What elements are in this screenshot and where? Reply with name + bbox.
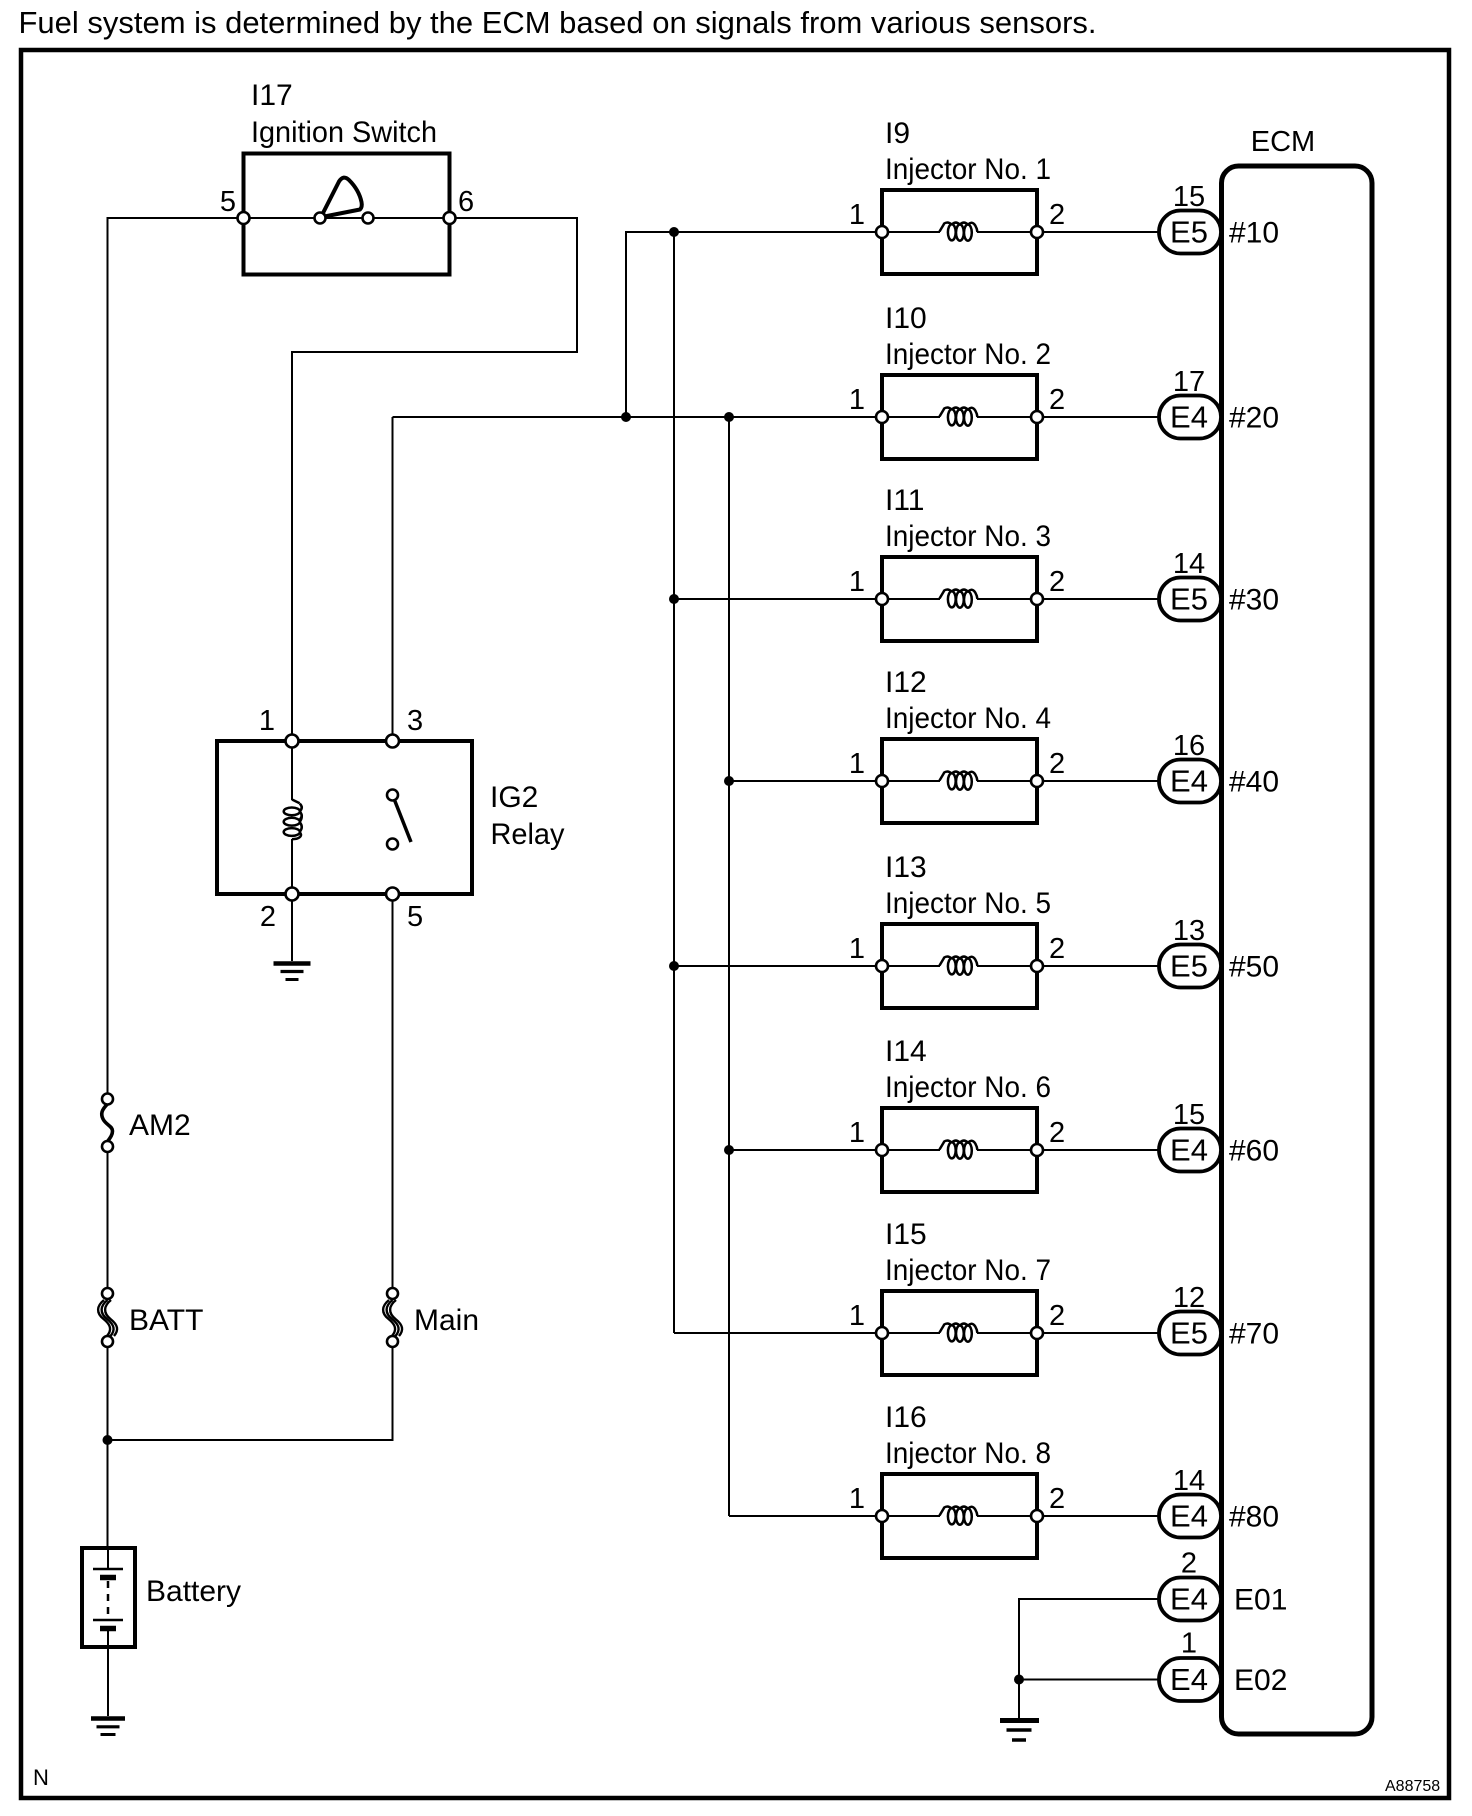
- relay pin 3: [386, 735, 399, 748]
- ECM box: [1222, 166, 1373, 1734]
- node: junction injector2 feed left: [621, 412, 631, 422]
- svg-text:1: 1: [259, 705, 275, 737]
- svg-text:2: 2: [1049, 748, 1065, 780]
- injector I12 coil: [948, 773, 956, 789]
- svg-text:E5: E5: [1170, 582, 1208, 617]
- relay contact circles: [387, 790, 398, 801]
- svg-text:1: 1: [849, 566, 865, 598]
- injector I14 pin 2: [1031, 1144, 1043, 1156]
- wire: bus feeding injectors 4,6,8: [728, 417, 730, 1516]
- svg-text:N: N: [33, 1765, 49, 1790]
- svg-text:I10: I10: [885, 302, 927, 335]
- wire: bus from injector1 row to injector2 row: [626, 232, 875, 417]
- svg-text:1: 1: [849, 1117, 865, 1149]
- injector I12 box: [882, 739, 1037, 823]
- injector I14 pin 1: [876, 1144, 888, 1156]
- svg-text:2: 2: [1049, 1117, 1065, 1149]
- injector I10 pin 1: [876, 411, 888, 423]
- svg-text:14: 14: [1173, 1465, 1205, 1497]
- injector I11 coil: [948, 591, 956, 607]
- relay coil: [291, 747, 293, 800]
- svg-text:#30: #30: [1229, 584, 1279, 617]
- ECM connector E4 pin 16 (#40): [1159, 760, 1221, 803]
- injector I9 pin 1: [876, 226, 888, 238]
- node: junction injector2 feed right: [724, 412, 734, 422]
- injector I14 coil: [948, 1142, 956, 1158]
- ECM connector E5 pin 14 (#30): [1159, 578, 1221, 621]
- ground (battery): [91, 1719, 125, 1735]
- svg-text:12: 12: [1173, 1282, 1205, 1314]
- wire: feed to injector I10 pin1: [393, 416, 876, 418]
- svg-text:Injector No. 7: Injector No. 7: [885, 1254, 1051, 1287]
- ECM connector E4 pin 14 (#80): [1159, 1495, 1221, 1538]
- injector I11 box: [882, 557, 1037, 641]
- svg-text:2: 2: [1049, 199, 1065, 231]
- svg-text:E4: E4: [1170, 1133, 1208, 1168]
- svg-text:17: 17: [1173, 366, 1205, 398]
- wire: bus feeding injectors 3,5,7: [673, 232, 675, 1333]
- wire: injector I11 pin2 to ECM #30: [1043, 598, 1159, 600]
- injector I16 box: [882, 1474, 1037, 1558]
- node: junction injector5 feed: [669, 961, 679, 971]
- relay pin 1: [286, 735, 299, 748]
- ECM connector E5 pin 15 (#10): [1159, 211, 1221, 254]
- svg-text:Ignition Switch: Ignition Switch: [251, 116, 437, 149]
- svg-text:IG2: IG2: [490, 781, 538, 814]
- svg-text:15: 15: [1173, 181, 1205, 213]
- wire: injector I9 pin2 to ECM #10: [1043, 231, 1159, 233]
- node: junction injector4 feed: [724, 776, 734, 786]
- ignition switch blade: [323, 178, 362, 217]
- injector I15 coil: [948, 1325, 956, 1341]
- svg-text:1: 1: [849, 199, 865, 231]
- wire: E01 to ground branch: [1019, 1599, 1159, 1680]
- svg-text:A88758: A88758: [1385, 1778, 1440, 1795]
- ECM connector E4 pin 2 (E01): [1159, 1578, 1221, 1621]
- svg-text:Injector No. 2: Injector No. 2: [885, 338, 1051, 371]
- node: battery junction: [103, 1435, 113, 1445]
- fusible link Main: [383, 1300, 402, 1336]
- wire: injector I14 pin2 to ECM #60: [1043, 1149, 1159, 1151]
- injector I13 pin 2: [1031, 960, 1043, 972]
- injector I15 pin 1: [876, 1327, 888, 1339]
- ignition switch inner contact circles: [315, 213, 326, 224]
- wire: junction to Main fusible link: [108, 1347, 393, 1440]
- wire: feed to injector I15 pin1: [674, 1332, 875, 1334]
- wire: feed to injector I12 pin1: [729, 780, 875, 782]
- wire: feed to injector I16 pin1: [729, 1515, 875, 1517]
- node: ground junction: [1014, 1675, 1024, 1685]
- wire: injector I16 pin2 to ECM #80: [1043, 1515, 1159, 1517]
- wire: injector I13 pin2 to ECM #50: [1043, 965, 1159, 967]
- svg-text:Relay: Relay: [491, 818, 565, 851]
- wire: injector I12 pin2 to ECM #40: [1043, 780, 1159, 782]
- svg-text:2: 2: [1049, 1300, 1065, 1332]
- injector I13 box: [882, 924, 1037, 1008]
- injector I16 internal wire: [888, 1515, 940, 1517]
- ignition switch I17 box: [244, 154, 450, 275]
- wire: relay pin3 to injector No.2 feed: [392, 417, 394, 735]
- svg-text:Injector No. 3: Injector No. 3: [885, 520, 1051, 553]
- svg-text:5: 5: [407, 901, 423, 933]
- injector I9 coil: [948, 224, 956, 240]
- svg-text:2: 2: [1181, 1548, 1197, 1580]
- svg-text:#80: #80: [1229, 1501, 1279, 1534]
- svg-text:#40: #40: [1229, 766, 1279, 799]
- svg-text:1: 1: [849, 933, 865, 965]
- svg-text:1: 1: [849, 1300, 865, 1332]
- ignition switch pin 6: [444, 212, 456, 224]
- relay pin 2: [286, 888, 299, 901]
- injector I15 box: [882, 1291, 1037, 1375]
- ignition switch pin 5: [238, 212, 250, 224]
- node: junction injector3 feed: [669, 594, 679, 604]
- svg-text:3: 3: [407, 705, 423, 737]
- svg-text:Injector No. 8: Injector No. 8: [885, 1437, 1051, 1470]
- relay contact blade: [395, 800, 412, 842]
- svg-text:E02: E02: [1234, 1664, 1287, 1697]
- svg-text:Injector No. 5: Injector No. 5: [885, 887, 1051, 920]
- wire: BATT to battery: [107, 1347, 109, 1548]
- wire: junction to ground: [1018, 1680, 1020, 1719]
- svg-text:E01: E01: [1234, 1584, 1287, 1617]
- svg-text:E5: E5: [1170, 215, 1208, 250]
- injector I13 pin 1: [876, 960, 888, 972]
- svg-text:E5: E5: [1170, 949, 1208, 984]
- injector I12 pin 1: [876, 775, 888, 787]
- injector I14 box: [882, 1108, 1037, 1192]
- injector I9 box: [882, 190, 1037, 274]
- injector I10 internal wire: [888, 416, 940, 418]
- svg-text:2: 2: [1049, 384, 1065, 416]
- svg-text:5: 5: [220, 186, 236, 218]
- ground (ECM E01/E02): [1000, 1721, 1039, 1741]
- svg-text:E4: E4: [1170, 764, 1208, 799]
- node: junction injector6 feed: [724, 1145, 734, 1155]
- svg-text:1: 1: [1181, 1628, 1197, 1660]
- svg-text:E4: E4: [1170, 1582, 1208, 1617]
- wire: feed to injector I11 pin1: [674, 598, 875, 600]
- node: junction injector1 feed: [669, 227, 679, 237]
- svg-text:Injector No. 4: Injector No. 4: [885, 702, 1051, 735]
- svg-text:1: 1: [849, 748, 865, 780]
- svg-text:I15: I15: [885, 1218, 927, 1251]
- wire: feed to injector I13 pin1: [674, 965, 875, 967]
- svg-text:E5: E5: [1170, 1316, 1208, 1351]
- wire: AM2 to BATT: [107, 1152, 109, 1288]
- svg-text:#10: #10: [1229, 217, 1279, 250]
- svg-text:Fuel system is determined by t: Fuel system is determined by the ECM bas…: [19, 5, 1097, 40]
- injector I10 box: [882, 375, 1037, 459]
- injector I16 pin 1: [876, 1510, 888, 1522]
- svg-text:I11: I11: [885, 484, 924, 517]
- svg-text:Injector No. 1: Injector No. 1: [885, 153, 1051, 186]
- ground (relay): [274, 964, 311, 980]
- svg-text:1: 1: [849, 1483, 865, 1515]
- svg-text:2: 2: [1049, 1483, 1065, 1515]
- injector I16 coil: [948, 1508, 956, 1524]
- svg-text:2: 2: [1049, 933, 1065, 965]
- fuse AM2: [102, 1104, 113, 1142]
- svg-text:14: 14: [1173, 548, 1205, 580]
- svg-text:Main: Main: [414, 1304, 479, 1337]
- svg-text:I9: I9: [885, 117, 910, 150]
- wire: relay pin5 to Main fusible link: [392, 900, 394, 1288]
- battery: [82, 1548, 135, 1647]
- svg-text:Injector No. 6: Injector No. 6: [885, 1071, 1051, 1104]
- injector I14 internal wire: [888, 1149, 940, 1151]
- injector I13 internal wire: [888, 965, 940, 967]
- svg-text:#50: #50: [1229, 951, 1279, 984]
- wire: relay pin2 to ground: [291, 900, 293, 961]
- svg-text:BATT: BATT: [129, 1304, 203, 1337]
- wire: injector I15 pin2 to ECM #70: [1043, 1332, 1159, 1334]
- svg-text:16: 16: [1173, 730, 1205, 762]
- svg-text:I17: I17: [251, 79, 293, 112]
- injector I12 internal wire: [888, 780, 940, 782]
- svg-text:E4: E4: [1170, 1499, 1208, 1534]
- injector I11 pin 1: [876, 593, 888, 605]
- ECM connector E4 pin 15 (#60): [1159, 1129, 1221, 1172]
- svg-text:ECM: ECM: [1251, 126, 1315, 158]
- svg-text:1: 1: [849, 384, 865, 416]
- svg-text:2: 2: [260, 901, 276, 933]
- injector I13 coil: [948, 958, 956, 974]
- injector I16 pin 2: [1031, 1510, 1043, 1522]
- svg-text:15: 15: [1173, 1099, 1205, 1131]
- ECM connector E5 pin 12 (#70): [1159, 1312, 1221, 1355]
- svg-text:#60: #60: [1229, 1135, 1279, 1168]
- ignition switch contact wire: [249, 217, 444, 219]
- svg-text:I16: I16: [885, 1401, 927, 1434]
- fusible link BATT: [98, 1300, 117, 1336]
- injector I15 internal wire: [888, 1332, 940, 1334]
- svg-text:#70: #70: [1229, 1318, 1279, 1351]
- wire: feed to injector I14 pin1: [729, 1149, 875, 1151]
- svg-text:2: 2: [1049, 566, 1065, 598]
- injector I12 pin 2: [1031, 775, 1043, 787]
- injector I9 pin 2: [1031, 226, 1043, 238]
- relay IG2 box: [217, 741, 472, 894]
- ECM connector E5 pin 13 (#50): [1159, 945, 1221, 988]
- injector I10 pin 2: [1031, 411, 1043, 423]
- ECM connector E4 pin 1 (E02): [1159, 1658, 1221, 1701]
- injector I15 pin 2: [1031, 1327, 1043, 1339]
- wire: ignition switch pin5 to AM2 fuse: [108, 218, 244, 1093]
- wire: E02 to ground branch: [1019, 1679, 1159, 1681]
- wire: injector I10 pin2 to ECM #20: [1043, 416, 1159, 418]
- injector I10 coil: [948, 409, 956, 425]
- svg-text:Battery: Battery: [146, 1575, 241, 1608]
- injector I11 pin 2: [1031, 593, 1043, 605]
- svg-text:E4: E4: [1170, 1662, 1208, 1697]
- ECM connector E4 pin 17 (#20): [1159, 396, 1221, 439]
- svg-text:E4: E4: [1170, 400, 1208, 435]
- svg-text:I14: I14: [885, 1035, 927, 1068]
- injector I9 internal wire: [888, 231, 940, 233]
- svg-text:#20: #20: [1229, 402, 1279, 435]
- wire: battery to ground: [107, 1647, 109, 1716]
- svg-text:6: 6: [458, 186, 474, 218]
- svg-text:I13: I13: [885, 851, 927, 884]
- svg-text:I12: I12: [885, 666, 927, 699]
- svg-text:AM2: AM2: [129, 1109, 191, 1142]
- injector I11 internal wire: [888, 598, 940, 600]
- relay pin 5: [386, 888, 399, 901]
- wire: ignition switch pin6 to IG2 relay pin1: [292, 218, 577, 735]
- svg-text:13: 13: [1173, 915, 1205, 947]
- wire: feed to injector I9 pin1: [626, 231, 875, 233]
